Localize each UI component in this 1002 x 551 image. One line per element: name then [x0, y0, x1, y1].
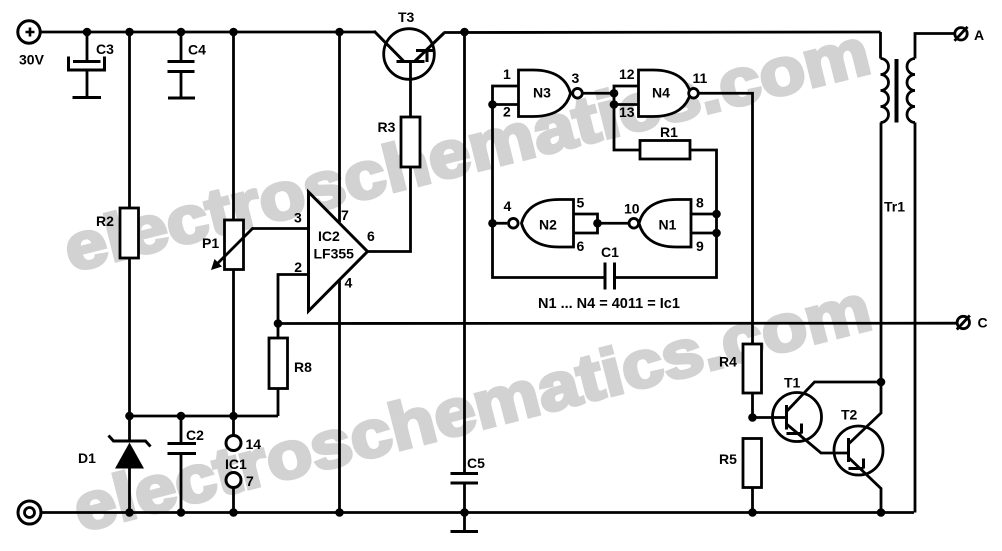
resistor R2 [120, 208, 139, 258]
watermark electroschematics.com upper [56, 14, 876, 286]
wire C4 leads [180, 32, 183, 98]
svg-text:12: 12 [619, 66, 635, 82]
capacitor C1 [605, 263, 615, 290]
wire pin2 to opamp [278, 275, 309, 324]
svg-text:A: A [974, 27, 984, 43]
wire bottom rail [42, 511, 915, 514]
resistor R5 [743, 439, 762, 488]
wire pin7 pin4 column [338, 32, 341, 513]
wire P1 IC1 column [232, 32, 235, 513]
wire top rail right [444, 31, 881, 34]
capacitor C3 [69, 57, 105, 98]
wire R8 leads [277, 324, 280, 417]
svg-text:9: 9 [696, 238, 704, 254]
wire T3 base to R3 to pin6 [368, 62, 411, 252]
svg-text:4: 4 [504, 198, 512, 214]
svg-text:14: 14 [246, 436, 262, 452]
svg-text:T2: T2 [841, 407, 858, 423]
svg-text:R5: R5 [719, 451, 737, 467]
svg-text:C5: C5 [467, 455, 485, 471]
svg-text:N3: N3 [533, 85, 551, 101]
op-amp IC2 triangle [309, 192, 368, 311]
wire transformer primary top lead [879, 32, 882, 59]
junction dots bottom rail [125, 508, 885, 517]
svg-text:6: 6 [367, 228, 375, 244]
svg-text:10: 10 [624, 201, 640, 217]
svg-text:R3: R3 [378, 119, 396, 135]
svg-text:4: 4 [345, 275, 353, 291]
svg-text:R1: R1 [660, 124, 678, 140]
svg-text:5: 5 [577, 195, 585, 211]
wire C3 leads [86, 32, 89, 98]
svg-text:6: 6 [577, 238, 585, 254]
wire T2 emitter down [849, 458, 882, 513]
svg-text:R2: R2 [96, 213, 114, 229]
wire transformer secondary top lead to A [915, 34, 955, 59]
NAND gate N2 mirrored [509, 200, 574, 248]
IC1 pin 7 circle [226, 473, 241, 488]
NAND gate N4 [639, 70, 699, 117]
wire N2 pins 5 6 tie [574, 214, 630, 233]
NAND gate N3 [519, 70, 583, 117]
svg-text:N1 ... N4 = 4011 = Ic1: N1 ... N4 = 4011 = Ic1 [538, 296, 680, 312]
svg-text:C1: C1 [601, 244, 619, 260]
svg-text:N4: N4 [652, 85, 670, 101]
terminal + 30V input [18, 21, 40, 43]
svg-text:T1: T1 [784, 375, 801, 391]
wire pin3 to opamp [252, 227, 309, 230]
svg-text:7: 7 [341, 207, 349, 223]
P1 arrow head [211, 259, 222, 270]
svg-text:Tr1: Tr1 [884, 199, 905, 215]
svg-text:11: 11 [693, 70, 708, 86]
junction dot node C at pin2 [274, 319, 283, 328]
svg-text:T3: T3 [398, 9, 415, 25]
svg-text:7: 7 [246, 473, 254, 489]
wire node C line [278, 322, 957, 325]
wire R2 D1 column [128, 32, 131, 513]
zener diode D1 [109, 436, 151, 447]
svg-text:C4: C4 [188, 42, 206, 58]
junction dots mid line y416 [125, 412, 238, 421]
resistor R3 [401, 117, 420, 167]
junction dot T1 base [748, 413, 757, 422]
capacitor C5 [451, 474, 479, 532]
svg-text:13: 13 [619, 104, 635, 120]
transformer Tr1 core [895, 59, 899, 123]
terminal C [957, 316, 970, 330]
wire N2 output to left bus [493, 222, 508, 225]
transistor T1 [773, 393, 822, 442]
IC1 pin 14 circle [226, 436, 241, 451]
junction dots NAND block [488, 89, 721, 237]
wire C5 column [463, 32, 466, 532]
wire T1 base lead [753, 416, 787, 419]
NAND gate N1 mirrored [629, 200, 691, 248]
svg-text:3: 3 [294, 210, 302, 226]
capacitor C4 [168, 62, 196, 99]
svg-text:IC1: IC1 [225, 456, 247, 472]
wire T1 emitter to T2 base [787, 424, 849, 453]
wire N4 output to R4 column [698, 93, 752, 512]
transformer Tr1 secondary winding [907, 59, 915, 123]
resistor R8 [269, 338, 288, 389]
potentiometer P1 [216, 220, 253, 270]
resistor R1 [640, 141, 690, 160]
wire mid junction line y416 [130, 415, 279, 418]
svg-text:C: C [978, 315, 988, 331]
svg-text:3: 3 [572, 70, 580, 86]
svg-text:2: 2 [503, 104, 511, 120]
svg-text:N2: N2 [539, 217, 557, 233]
svg-text:P1: P1 [202, 235, 219, 251]
transistor T3 [374, 29, 444, 80]
wire transformer secondary bottom lead [914, 123, 917, 513]
svg-text:N1: N1 [659, 217, 677, 233]
svg-text:8: 8 [696, 195, 704, 211]
svg-text:C2: C2 [186, 427, 204, 443]
terminal A [955, 27, 968, 41]
wire T1 collector to junction [787, 382, 882, 412]
wire C2 leads [180, 416, 183, 513]
svg-text:30V: 30V [19, 52, 45, 68]
svg-text:1: 1 [503, 66, 511, 82]
wire T2 collector up [849, 123, 882, 445]
terminal ground bottom-left [18, 501, 41, 524]
svg-text:D1: D1 [78, 450, 96, 466]
resistor R4 [743, 344, 762, 393]
wire N3 output to N4 inputs bus [582, 86, 640, 150]
svg-text:LF355: LF355 [314, 246, 355, 262]
svg-text:IC2: IC2 [318, 228, 340, 244]
wire top rail left [41, 31, 376, 34]
junction dot collectors [877, 378, 886, 387]
watermark electroschematics.com lower [66, 270, 879, 546]
svg-text:C3: C3 [96, 41, 114, 57]
svg-text:R8: R8 [294, 359, 312, 375]
junction dots top rail [83, 28, 469, 37]
svg-text:2: 2 [294, 259, 302, 275]
svg-text:R4: R4 [719, 354, 737, 370]
transformer Tr1 primary winding [881, 59, 889, 123]
NAND block left bus wire [493, 86, 606, 278]
wire R1 right lead down to N1 pins [615, 150, 717, 278]
transistor T2 [834, 426, 883, 475]
capacitor C2 [168, 444, 197, 454]
svg-text:electroschematics.com: electroschematics.com [66, 270, 879, 546]
